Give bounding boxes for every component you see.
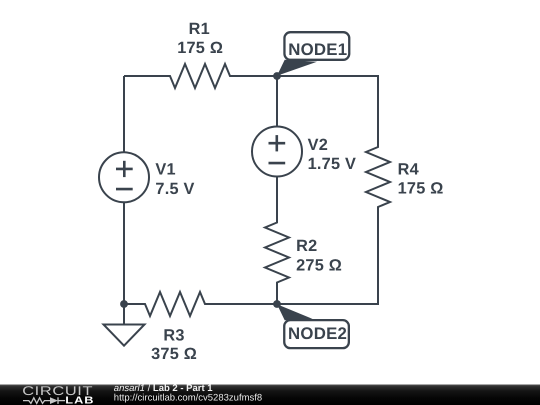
- svg-text:http://circuitlab.com/cv5283zu: http://circuitlab.com/cv5283zufmsf8: [114, 393, 262, 404]
- svg-text:V2: V2: [308, 136, 328, 154]
- svg-text:NODE1: NODE1: [288, 40, 347, 59]
- svg-text:R2: R2: [296, 237, 317, 255]
- svg-text:R4: R4: [398, 161, 419, 179]
- svg-text:375 Ω: 375 Ω: [151, 345, 197, 363]
- svg-text:275 Ω: 275 Ω: [296, 256, 342, 274]
- svg-text:NODE2: NODE2: [288, 324, 347, 343]
- svg-text:LAB: LAB: [65, 396, 94, 405]
- svg-text:V1: V1: [155, 161, 175, 179]
- svg-text:1.75 V: 1.75 V: [308, 155, 357, 173]
- svg-text:175 Ω: 175 Ω: [177, 39, 223, 57]
- svg-text:175 Ω: 175 Ω: [398, 180, 444, 198]
- svg-text:7.5 V: 7.5 V: [155, 180, 194, 198]
- svg-text:R1: R1: [189, 20, 210, 38]
- svg-text:R3: R3: [163, 327, 184, 345]
